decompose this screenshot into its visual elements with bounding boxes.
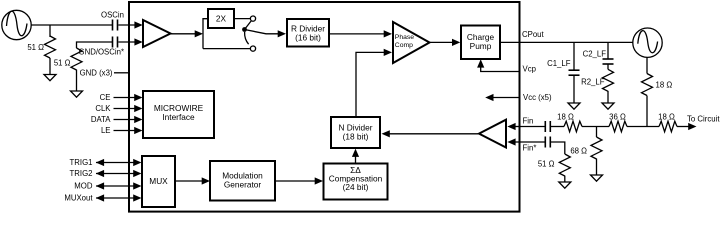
svg-text:To Circuit: To Circuit (687, 114, 720, 123)
svg-text:Fin: Fin (523, 117, 534, 126)
wire buffer output (171, 33, 197, 35)
wire switch to R divider (245, 30, 279, 34)
wire MUXout (96, 197, 135, 199)
switch wiper (245, 21, 252, 30)
capacitor C2_LF (603, 42, 614, 64)
resistor 51 ohm on OSCin* (71, 48, 82, 91)
svg-text:GND/OSCin*: GND/OSCin* (79, 48, 125, 57)
VCO source (633, 28, 662, 57)
wire phase comp to charge pump (430, 41, 453, 43)
input buffer amplifier (143, 20, 171, 47)
switch travel arc (245, 32, 249, 44)
wire CPout (500, 41, 633, 43)
svg-text:2X: 2X (216, 14, 227, 24)
wire CLK (114, 108, 136, 110)
svg-text:18 Ω: 18 Ω (656, 81, 673, 90)
switch contact bottom (250, 46, 255, 51)
oscillator source OSC1 (2, 10, 31, 39)
capacitor OSCin* coupling (113, 37, 118, 48)
wire TRIG1 (96, 162, 135, 164)
capacitor OSCin coupling (113, 20, 118, 31)
svg-text:MOD: MOD (74, 182, 93, 191)
ground (71, 91, 83, 97)
wire OSCin* into chip (118, 41, 136, 43)
svg-text:51 Ω: 51 Ω (27, 43, 44, 52)
svg-text:Fin*: Fin* (523, 144, 537, 153)
wire to circuit arrow (688, 123, 696, 130)
svg-text:51 Ω: 51 Ω (538, 160, 555, 169)
svg-text:(18 bit): (18 bit) (343, 132, 369, 142)
capacitor C1_LF (569, 42, 580, 103)
wire 2X output (234, 18, 250, 20)
wire Fin into chip (515, 126, 520, 128)
resistor 51 ohm on Fin* (551, 142, 570, 182)
svg-text:GND (x3): GND (x3) (80, 69, 113, 78)
R Divider box (287, 19, 329, 47)
svg-text:MUX: MUX (149, 176, 168, 186)
switch contact top (250, 16, 255, 21)
capacitor Fin coupling (545, 121, 550, 132)
MUX box (142, 156, 175, 207)
svg-text:MUXout: MUXout (64, 194, 93, 203)
svg-text:CLK: CLK (95, 104, 111, 113)
svg-text:Pump: Pump (470, 41, 492, 51)
resistor 18 ohm below VCO (642, 57, 653, 126)
wire Fin* into chip (515, 141, 520, 143)
MICROWIRE Interface box (143, 91, 214, 138)
switch pole junction (242, 27, 247, 32)
wire modulation generator to sigma-delta (275, 180, 316, 182)
wire MUX to modulation generator (175, 180, 203, 182)
Modulation Generator box (210, 161, 275, 201)
svg-text:51 Ω: 51 Ω (54, 59, 71, 68)
wire Fin* external (520, 141, 546, 143)
wire bypass bottom (203, 48, 250, 50)
ground (559, 182, 571, 188)
svg-text:Phase: Phase (395, 34, 414, 41)
svg-text:TRIG2: TRIG2 (70, 169, 93, 178)
resistor 51 ohm on OSCin (45, 25, 56, 74)
wire LE (114, 130, 136, 132)
Fin input buffer (479, 120, 506, 148)
svg-text:LE: LE (101, 126, 111, 135)
svg-text:TRIG1: TRIG1 (70, 158, 93, 167)
svg-text:Generator: Generator (224, 180, 262, 190)
svg-text:R2_LF: R2_LF (581, 78, 605, 87)
wire DATA (114, 119, 136, 121)
ground (591, 175, 603, 181)
capacitor Fin* coupling (545, 137, 550, 148)
svg-text:18 Ω: 18 Ω (658, 113, 675, 122)
svg-text:Vcp: Vcp (523, 64, 537, 73)
svg-text:Interface: Interface (162, 112, 195, 122)
svg-text:OSCin: OSCin (101, 11, 124, 20)
wire GND pin (114, 72, 129, 74)
svg-text:(24 bit): (24 bit) (343, 182, 369, 192)
wire OSCin into chip (118, 24, 136, 26)
svg-text:18 Ω: 18 Ω (557, 113, 574, 122)
ground (44, 75, 56, 81)
svg-text:DATA: DATA (91, 115, 111, 124)
Charge Pump box (461, 26, 500, 60)
resistor 68 ohm (591, 127, 602, 176)
phase comparator (393, 22, 430, 63)
wire TRIG2 (96, 173, 135, 175)
ground (602, 103, 614, 109)
resistor 36 ohm (609, 121, 659, 132)
wire branch vertical (203, 19, 208, 49)
wire GND/OSCin* external (77, 42, 113, 48)
wire Vcp (481, 66, 520, 72)
wire CE (114, 97, 136, 99)
wire Vcc (493, 97, 520, 99)
ground (568, 103, 580, 109)
resistor R2_LF (603, 64, 614, 103)
wire Fin buffer to N divider (389, 133, 479, 135)
svg-text:C1_LF: C1_LF (547, 59, 571, 68)
sigma-delta compensation box (324, 164, 388, 200)
wire sigma-delta to N divider (355, 155, 357, 164)
svg-text:C2_LF: C2_LF (583, 50, 607, 59)
svg-text:Comp: Comp (395, 42, 413, 49)
wire OSCin external (31, 24, 112, 26)
chip outline U1 (129, 2, 520, 212)
svg-text:68 Ω: 68 Ω (570, 147, 587, 156)
svg-text:CPout: CPout (522, 30, 545, 39)
svg-text:(16 bit): (16 bit) (295, 33, 321, 43)
resistor 18 ohm Fin series (551, 121, 609, 132)
svg-text:36 Ω: 36 Ω (609, 113, 626, 122)
wire Fin external (520, 126, 546, 128)
wire MOD (96, 185, 135, 187)
doubler 2X box (208, 9, 234, 28)
svg-text:CE: CE (100, 93, 111, 102)
N Divider box (331, 117, 380, 148)
resistor 18 ohm output series (659, 121, 689, 132)
svg-text:Vcc (x5): Vcc (x5) (523, 93, 552, 102)
wire R divider to phase comp (329, 33, 385, 35)
wire N divider feedback to phase comp (356, 52, 385, 117)
